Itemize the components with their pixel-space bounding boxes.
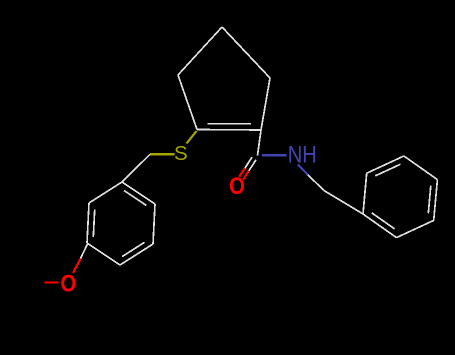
svg-text:S: S xyxy=(174,142,188,165)
svg-text:NH: NH xyxy=(288,141,317,168)
svg-text:O: O xyxy=(60,270,76,297)
svg-text:O: O xyxy=(229,172,245,199)
